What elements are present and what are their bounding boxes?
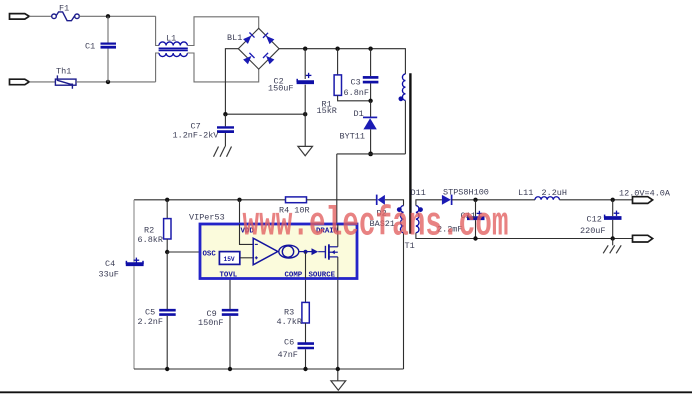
svg-text:2.2nF: 2.2nF xyxy=(138,317,164,327)
wire: D11 to L11 xyxy=(452,199,535,201)
junction dot SOURCE/ground xyxy=(336,367,340,371)
wire: bottom ground rail xyxy=(134,368,404,370)
svg-text:2.2uH: 2.2uH xyxy=(542,188,568,198)
ground (earth triangle) xyxy=(298,146,313,155)
junction dot C9 bottom xyxy=(228,367,232,371)
comparator + mark xyxy=(255,256,258,259)
wire: drain node down to DRAIN pin xyxy=(336,154,338,224)
wire: transformer primary bottom xyxy=(404,101,406,154)
junction dot VDD pin xyxy=(237,198,241,202)
svg-text:C6: C6 xyxy=(284,337,294,347)
svg-text:6.8nF: 6.8nF xyxy=(344,88,370,98)
node: drain junction xyxy=(368,152,373,157)
bridge rectifier BL1 xyxy=(238,28,279,69)
svg-text:COMP: COMP xyxy=(285,272,303,280)
node A junction dot xyxy=(106,14,110,18)
junction dot C2 top xyxy=(303,47,307,51)
wire: aux winding bottom down to ground rail xyxy=(403,233,405,369)
wire: COMP pin to R3 xyxy=(305,279,307,303)
junction dot C12 bottom xyxy=(611,236,615,240)
wire: SOURCE pin down xyxy=(337,279,339,381)
wire: VDD pin drop xyxy=(239,200,241,224)
svg-text:220uF: 220uF xyxy=(580,226,606,236)
wire: L1 bottom to bridge bottom xyxy=(187,53,258,82)
junction dot C11 bottom xyxy=(473,236,477,240)
resistor R3 xyxy=(302,302,309,323)
wire: MOSFET drain to DRAIN pin xyxy=(337,224,339,247)
chassis ground (C7) xyxy=(214,147,232,157)
diode D11 xyxy=(442,195,452,205)
inductor L11 xyxy=(535,197,559,200)
svg-text:www.elecfans.com: www.elecfans.com xyxy=(243,202,509,248)
capacitor C2 (bulk electrolytic) xyxy=(304,49,306,79)
output terminal J3 (top right plug) xyxy=(633,197,653,204)
transformer T1 primary winding xyxy=(402,74,405,100)
wire: L1 top to bridge top xyxy=(187,17,258,46)
wire: node A down-feed to L1 top xyxy=(156,16,159,45)
transformer secondary winding xyxy=(416,206,419,233)
current source (inside U1) xyxy=(279,245,299,258)
junction dot R2 top xyxy=(165,198,169,202)
capacitor C7 xyxy=(224,114,226,126)
input terminal J1 (top left plug) xyxy=(10,14,30,20)
svg-text:L11: L11 xyxy=(518,188,533,198)
wire: D2 to aux winding top xyxy=(385,200,404,206)
svg-text:F1: F1 xyxy=(59,4,69,14)
transformer aux winding xyxy=(400,206,403,233)
diode D2 xyxy=(377,195,385,205)
svg-text:C3: C3 xyxy=(351,78,361,88)
capacitor C5 xyxy=(159,310,176,314)
svg-text:C12: C12 xyxy=(587,214,602,224)
svg-text:STPS8H100: STPS8H100 xyxy=(443,188,489,198)
resistor R1 xyxy=(337,49,339,75)
capacitor C11 xyxy=(475,200,477,217)
junction dot clamp bottom xyxy=(368,99,372,103)
comparator - mark xyxy=(255,243,258,245)
wire: VDD rail left segment xyxy=(134,199,286,201)
svg-text:150uF: 150uF xyxy=(268,84,294,94)
svg-text:BL1: BL1 xyxy=(227,33,242,43)
input terminal J2 (bottom left plug) xyxy=(10,79,30,85)
capacitor C3 xyxy=(370,49,372,76)
transformer core xyxy=(409,73,411,234)
wire: secondary bottom rail xyxy=(416,233,633,239)
capacitor C4 xyxy=(133,200,135,262)
gate drive arrow xyxy=(312,248,319,255)
svg-text:R3: R3 xyxy=(284,308,294,318)
bottom border line xyxy=(0,391,692,393)
chassis ground (output) xyxy=(612,239,614,246)
junction dot OSC node xyxy=(165,250,169,254)
wire: ground stem xyxy=(304,114,306,146)
wire: drain node horizontal xyxy=(337,153,406,155)
capacitor C1 xyxy=(101,44,117,48)
wire: minus rail xyxy=(225,113,305,115)
secondary phase dot xyxy=(418,207,423,212)
svg-text:C4: C4 xyxy=(105,259,115,269)
junction dot R1 top xyxy=(335,47,339,51)
comparator (inside U1) xyxy=(253,238,278,265)
wire: TOVL pin to C9 xyxy=(229,279,231,310)
wire: C1 vertical xyxy=(107,16,109,42)
primary phase dot xyxy=(399,96,404,101)
op-amp U1 VIPer53 IC box xyxy=(200,224,357,279)
aux phase dot xyxy=(397,207,402,212)
wire: R4 to D2 xyxy=(307,199,377,201)
wire: COMP internal drop xyxy=(305,252,307,279)
svg-text:Th1: Th1 xyxy=(56,67,71,77)
thermistor Th1 xyxy=(55,75,76,88)
junction dot minus/ground node xyxy=(303,112,307,116)
15V reference box xyxy=(219,252,239,265)
diode D1 xyxy=(370,101,372,117)
svg-text:15V: 15V xyxy=(224,256,235,263)
junction dot C12 top xyxy=(611,198,615,202)
svg-text:33uF: 33uF xyxy=(99,269,119,279)
fuse F1 xyxy=(52,12,80,21)
resistor R2 xyxy=(166,200,168,219)
wire: Th1 to node B xyxy=(76,81,156,83)
wire: 15V box to comparator xyxy=(240,257,253,259)
resistor R4 xyxy=(286,197,307,203)
wire: bottom input to Th1 xyxy=(29,81,55,83)
junction dot C7 node xyxy=(223,112,227,116)
junction dot C5 bottom xyxy=(165,367,169,371)
wire: secondary top to D11 xyxy=(416,200,442,206)
svg-text:D1: D1 xyxy=(354,109,364,119)
MOSFET (inside U1) xyxy=(325,244,337,259)
capacitor C6 xyxy=(298,344,315,348)
wire: VDD internal drop to comparator xyxy=(240,224,254,244)
svg-text:47nF: 47nF xyxy=(278,350,298,360)
wire: MOSFET source to SOURCE pin xyxy=(337,257,339,279)
svg-text:D11: D11 xyxy=(411,188,426,198)
wire: OSC pin xyxy=(167,251,200,253)
wire: fuse to node A xyxy=(79,15,155,17)
node COMP internal dot xyxy=(303,250,307,254)
ground (main, open triangle) xyxy=(331,381,346,390)
wire: top input line to fuse xyxy=(29,15,52,17)
junction dot C3 top xyxy=(368,47,372,51)
inductor L1 (common-mode choke) xyxy=(159,42,188,57)
svg-text:BYT11: BYT11 xyxy=(340,131,366,141)
output terminal J4 (bottom right plug) xyxy=(633,235,653,242)
svg-text:L1: L1 xyxy=(166,34,176,44)
wire: OSC node to C5 xyxy=(166,252,168,309)
wire: bridge + rail to transformer xyxy=(279,49,405,74)
svg-text:SOURCE: SOURCE xyxy=(309,272,336,280)
junction dot C6 bottom xyxy=(303,367,307,371)
wire: current source to gate arrow xyxy=(299,251,312,253)
svg-text:15kR: 15kR xyxy=(317,106,337,116)
svg-text:6.8kR: 6.8kR xyxy=(138,235,164,245)
svg-text:4.7kR: 4.7kR xyxy=(277,317,303,327)
junction dot C11 top xyxy=(473,198,477,202)
wire: node B up-feed to L1 bottom xyxy=(156,53,159,82)
svg-text:C5: C5 xyxy=(145,308,155,318)
svg-text:VIPer53: VIPer53 xyxy=(189,213,225,223)
wire: L11 to output xyxy=(559,199,632,201)
node B junction dot xyxy=(106,80,110,84)
wire: bridge - to minus rail xyxy=(225,49,238,115)
svg-text:OSC: OSC xyxy=(203,251,217,259)
svg-text:1.2nF-2kV: 1.2nF-2kV xyxy=(173,131,220,141)
capacitor C12 xyxy=(612,200,614,216)
capacitor C9 xyxy=(222,310,239,314)
svg-text:C1: C1 xyxy=(85,42,95,52)
svg-text:150nF: 150nF xyxy=(198,318,224,328)
svg-text:TOVL: TOVL xyxy=(220,271,238,279)
